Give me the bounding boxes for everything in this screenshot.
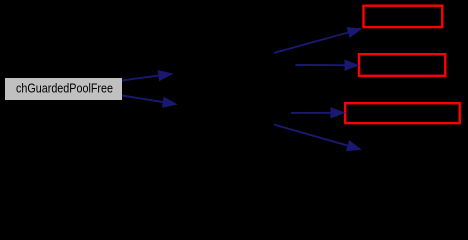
svg-text:chGuardedPoolFree: chGuardedPoolFree <box>16 80 113 95</box>
